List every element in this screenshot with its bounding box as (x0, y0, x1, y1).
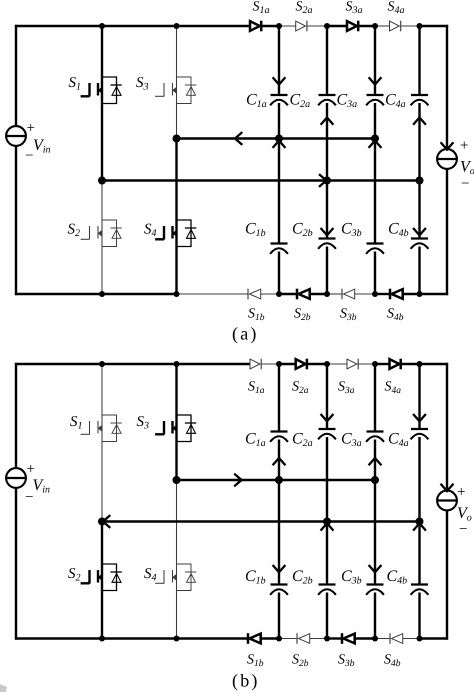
wire leg S3/S4 lower (diagram a) (175, 139, 177, 295)
diode S2b (diagram b) (297, 633, 310, 644)
wire capacitor leg 1 upper segment (diagram b) (278, 364, 280, 432)
wire capacitor leg 2 middle segment (diagram a) (326, 103, 328, 239)
junction top rail node 4a (diagram b) (417, 361, 423, 367)
wire capacitor leg 2 middle segment (diagram b) (326, 437, 328, 585)
junction top rail node 3a (diagram a) (372, 23, 378, 29)
junction phase line 1 C3 leg (diagram b) (371, 476, 379, 484)
diode S2a (diagram b) (296, 359, 307, 370)
junction bottom rail node 4b (diagram b) (417, 636, 423, 642)
wire capacitor leg 4 middle segment (diagram b) (418, 437, 420, 585)
wire capacitor leg 3 middle segment (diagram b) (374, 440, 376, 585)
wire capacitor leg 1 middle segment (diagram b) (278, 440, 280, 585)
wire capacitor leg 3 upper segment (diagram a) (374, 26, 376, 95)
wire bottom rail: S2b to node 2b (diagram a) (310, 293, 327, 295)
capacitor C1a (diagram a) (270, 95, 288, 105)
diode S3a (diagram a) (347, 21, 358, 32)
current arrow up through C2a (321, 118, 334, 125)
wire left rail lower (diagram b) (15, 488, 17, 640)
transistor S2 (diagram a) (81, 220, 122, 247)
wire right rail upper (diagram b) (446, 363, 448, 491)
capacitor C4a (diagram a) (411, 95, 429, 105)
wire capacitor leg 4 middle segment (diagram a) (418, 103, 420, 239)
wire bottom rail: node 3b to diode S4b (diagram a) (375, 293, 390, 295)
svg-text:(b): (b) (232, 671, 260, 691)
wire capacitor leg 3 lower segment (diagram b) (374, 593, 376, 639)
wire capacitor leg 3 lower segment (diagram a) (374, 252, 376, 295)
wire right rail upper (diagram a) (446, 25, 448, 149)
wire capacitor leg 4 upper segment (diagram b) (418, 364, 420, 429)
current arrow up from C1b into node (273, 141, 286, 148)
wire top rail: S1a to node 1a (diagram b) (261, 363, 279, 365)
capacitor C2b (diagram b) (318, 585, 336, 595)
current arrow into C3a (charging down) (369, 77, 382, 84)
current arrow left into phase node (b) (103, 515, 110, 528)
capacitor C1b (diagram b) (270, 585, 288, 595)
diode S1a (diagram b) (250, 359, 261, 370)
junction bottom rail node 4b (diagram a) (417, 291, 423, 297)
capacitor C2b (diagram a) (318, 239, 336, 249)
junction top rail node 2a (diagram b) (324, 361, 330, 367)
capacitor C1b (diagram a) (270, 244, 288, 254)
wire leg S1/S2 upper (diagram b) (101, 364, 103, 522)
current arrow into Vo (diagram b) (441, 484, 454, 491)
wire top rail: S4a to node 4a (diagram b) (401, 363, 420, 365)
current arrow up from C3b into node (369, 141, 382, 148)
wire right rail lower (diagram b) (446, 510, 448, 639)
wire leg S3/S4 lower (diagram b) (176, 480, 178, 639)
junction top rail S1 leg (diagram b) (99, 361, 105, 367)
wire bottom rail: node 2b to diode S3b (diagram b) (327, 637, 342, 639)
svg-text:+: + (457, 485, 465, 501)
diode S3a (diagram b) (347, 359, 358, 370)
wire top rail: S2a to node 2a (diagram b) (307, 363, 327, 365)
wire bottom rail: S1b to node 1b (diagram b) (261, 637, 279, 639)
transistor S4 (diagram b) (155, 564, 196, 591)
wire capacitor leg 4 lower segment (diagram b) (418, 593, 420, 639)
wire bottom rail: S4 leg to diode S1b (diagram a) (177, 293, 249, 295)
diode S4a (diagram b) (390, 359, 401, 370)
wire bottom rail: node 1b to diode S2b (diagram b) (279, 638, 297, 640)
wire left rail upper (diagram b) (15, 363, 17, 469)
junction phase line 2 C2 leg (diagram b) (323, 518, 331, 526)
voltage source Vo (diagram b) (437, 491, 457, 511)
junction top rail node 4a (diagram a) (417, 23, 423, 29)
wire capacitor leg 4 lower segment (diagram a) (418, 247, 420, 295)
junction phase line 2 S2 leg (diagram b) (98, 518, 106, 526)
diode S4a (diagram a) (390, 21, 401, 32)
wire right rail lower (diagram a) (446, 169, 448, 296)
wire capacitor leg 1 lower segment (diagram a) (278, 252, 280, 295)
wire top rail: node 4a to right corner (diagram b) (420, 363, 449, 365)
wire top rail: left corner to diode S1a (diagram b) (15, 363, 250, 365)
junction top rail S1 leg (diagram a) (99, 23, 105, 29)
junction phase line 1 C1 leg (diagram b) (275, 476, 283, 484)
junction bottom rail node 3b (diagram b) (372, 636, 378, 642)
wire left rail lower (diagram a) (15, 146, 17, 296)
svg-text:−: − (25, 490, 33, 506)
diode S1a (diagram a) (250, 21, 261, 32)
current arrow up through C4a (413, 118, 426, 125)
junction phase line 2 C4 leg (diagram b) (416, 518, 424, 526)
current arrow up through C1a (273, 458, 286, 465)
wire top rail: S1a to node 1a (diagram a) (261, 25, 279, 27)
junction bottom rail node 2b (diagram b) (324, 636, 330, 642)
capacitor C2a (diagram a) (318, 95, 336, 105)
wire bottom rail: S1b to node 1b (diagram a) (261, 293, 279, 295)
wire capacitor leg 3 middle segment (diagram a) (374, 103, 376, 244)
current arrow up from C2b into node (321, 523, 334, 530)
current arrow into C1a (charging down) (273, 77, 286, 84)
wire bottom rail: left corner to S4 leg (diagram a) (15, 293, 177, 295)
current arrow left on phase line 1 (235, 132, 242, 145)
transistor S1 (diagram a) (81, 77, 122, 104)
junction phase line 1 C3 leg (diagram a) (371, 135, 379, 143)
diode S1b (diagram a) (248, 289, 261, 300)
svg-text:−: − (461, 176, 469, 192)
diode S4b (diagram b) (390, 633, 403, 644)
svg-text:+: + (27, 462, 35, 478)
current arrow down into C2b (321, 228, 334, 235)
wire top rail: S3a to node 3a (diagram b) (358, 363, 375, 365)
transistor S2 (diagram b) (81, 564, 122, 591)
wire bottom rail: S2b to node 2b (diagram b) (310, 638, 327, 640)
wire leg S1/S2 upper (diagram a) (101, 26, 103, 181)
wire left rail upper (diagram a) (15, 25, 17, 127)
transistor S1 (diagram b) (81, 415, 122, 442)
diode S4b (diagram a) (390, 289, 403, 300)
wire top rail: S4a to node 4a (diagram a) (401, 25, 420, 27)
junction phase line 1 S4 leg (diagram a) (173, 135, 181, 143)
wire top rail: node 1a to diode S2a (diagram b) (279, 363, 296, 365)
capacitor C1a (diagram b) (270, 432, 288, 442)
junction top rail S3 leg (diagram a) (174, 23, 180, 29)
current arrow down into C4b (413, 228, 426, 235)
wire top rail: node 4a to right corner (diagram a) (420, 25, 449, 27)
current arrow up through C3a (369, 458, 382, 465)
wire bottom rail: S3b to node 3b (diagram b) (355, 637, 375, 639)
current arrow down into C2a (charging) (321, 414, 334, 421)
wire top rail: node 3a to diode S4a (diagram b) (375, 363, 390, 365)
capacitor C3a (diagram b) (366, 432, 384, 442)
wire capacitor leg 1 lower segment (diagram b) (278, 593, 280, 639)
capacitor C3b (diagram b) (366, 585, 384, 595)
transistor S3 (diagram b) (155, 415, 196, 442)
junction bottom rail node 3b (diagram a) (372, 291, 378, 297)
current arrow up from C4b into node (413, 523, 426, 530)
wire top rail: node 1a to diode S2a (diagram a) (279, 25, 296, 27)
wire leg S3/S4 upper (diagram a) (176, 26, 178, 139)
svg-text:+: + (27, 121, 35, 137)
junction phase line 2 S2 leg (diagram a) (98, 177, 106, 185)
scan artifact bottom-left corner (0, 684, 7, 692)
svg-text:+: + (460, 138, 468, 154)
wire phase line 2 (diagram a) (102, 179, 420, 181)
transistor S4 (diagram a) (155, 220, 196, 247)
junction top rail S3 leg (diagram b) (174, 361, 180, 367)
diode S2a (diagram a) (296, 21, 307, 32)
wire bottom rail: S4 leg to diode S1b (diagram b) (177, 637, 249, 639)
wire phase line 1 (diagram a) (177, 137, 376, 139)
wire bottom rail: node 1b to diode S2b (diagram a) (279, 293, 297, 295)
wire top rail: S2a to node 2a (diagram a) (307, 25, 327, 27)
diode S2b (diagram a) (297, 289, 310, 300)
wire capacitor leg 2 lower segment (diagram a) (326, 247, 328, 295)
junction bottom rail node 2b (diagram a) (324, 291, 330, 297)
svg-text:−: − (459, 522, 467, 538)
junction bottom rail node 1b (diagram b) (276, 636, 282, 642)
wire bottom rail: node 4b to right corner (diagram a) (420, 293, 449, 295)
junction top rail node 1a (diagram a) (276, 23, 282, 29)
capacitor C4b (diagram b) (411, 585, 429, 595)
wire top rail: S3a to node 3a (diagram a) (358, 25, 375, 27)
wire bottom rail: node 2b to diode S3b (diagram a) (327, 293, 342, 295)
current arrow right on phase line 1 (b) (234, 474, 241, 487)
junction phase line 2 C2 leg (diagram a) (323, 177, 331, 185)
voltage source Vin (diagram a) (6, 126, 26, 146)
wire bottom rail: node 3b to diode S4b (diagram b) (375, 638, 390, 640)
junction bottom rail S2 leg (diagram a) (99, 291, 105, 297)
voltage source Vo (diagram a) (437, 149, 457, 169)
junction bottom rail S2 leg (diagram b) (99, 636, 105, 642)
wire capacitor leg 1 middle segment (diagram a) (278, 103, 280, 244)
wire bottom rail: node 4b to right corner (diagram b) (420, 637, 449, 639)
current arrow right on phase line 2 (319, 174, 326, 187)
capacitor C3b (diagram a) (366, 244, 384, 254)
junction bottom rail S4 leg (diagram a) (174, 291, 180, 297)
junction phase line 2 C4 leg (diagram a) (416, 177, 424, 185)
junction top rail node 1a (diagram b) (276, 361, 282, 367)
junction bottom rail node 1b (diagram a) (276, 291, 282, 297)
wire leg S1/S2 lower (diagram a) (101, 181, 103, 295)
capacitor C4b (diagram a) (411, 239, 429, 249)
current arrow down into C4a (charging) (413, 414, 426, 421)
wire top rail: node 2a to diode S3a (diagram b) (327, 363, 347, 365)
junction top rail node 3a (diagram b) (372, 361, 378, 367)
junction bottom rail S4 leg (diagram b) (174, 636, 180, 642)
diode S1b (diagram b) (248, 633, 261, 644)
transistor S3 (diagram a) (155, 77, 196, 104)
wire capacitor leg 4 upper segment (diagram a) (418, 26, 420, 95)
wire leg S1/S2 lower (diagram b) (101, 522, 103, 639)
wire capacitor leg 1 upper segment (diagram a) (278, 26, 280, 95)
svg-text:(a): (a) (232, 324, 259, 344)
wire capacitor leg 2 lower segment (diagram b) (326, 593, 328, 639)
wire phase line 1 (diagram b) (177, 479, 376, 481)
svg-text:−: − (25, 148, 33, 164)
voltage source Vin (diagram b) (6, 468, 26, 488)
junction top rail node 2a (diagram a) (324, 23, 330, 29)
wire top rail: node 2a to diode S3a (diagram a) (327, 25, 347, 27)
wire bottom rail: S4b to node 4b (diagram b) (403, 638, 420, 640)
capacitor C2a (diagram b) (318, 429, 336, 439)
diode S3b (diagram b) (342, 633, 355, 644)
wire capacitor leg 3 upper segment (diagram b) (374, 364, 376, 432)
wire phase line 2 (diagram b) (102, 520, 420, 522)
wire leg S3/S4 upper (diagram b) (175, 364, 177, 480)
wire bottom rail: S3b to node 3b (diagram a) (355, 293, 375, 295)
diode S3b (diagram a) (342, 289, 355, 300)
wire capacitor leg 2 upper segment (diagram b) (326, 364, 328, 429)
wire top rail: left corner to diode S1a (diagram a) (15, 25, 250, 27)
capacitor C3a (diagram a) (366, 95, 384, 105)
current arrow down into C1b (273, 565, 286, 572)
junction phase line 1 S4 leg (diagram b) (173, 476, 181, 484)
wire top rail: node 3a to diode S4a (diagram a) (375, 25, 390, 27)
capacitor C4a (diagram b) (411, 429, 429, 439)
current arrow down into C3b (369, 565, 382, 572)
wire capacitor leg 2 upper segment (diagram a) (326, 26, 328, 95)
wire bottom rail: left corner to S4 leg (diagram b) (15, 637, 177, 639)
current arrow into Vo (diagram a) (441, 142, 454, 149)
junction phase line 1 C1 leg (diagram a) (275, 135, 283, 143)
wire bottom rail: S4b to node 4b (diagram a) (403, 293, 420, 295)
